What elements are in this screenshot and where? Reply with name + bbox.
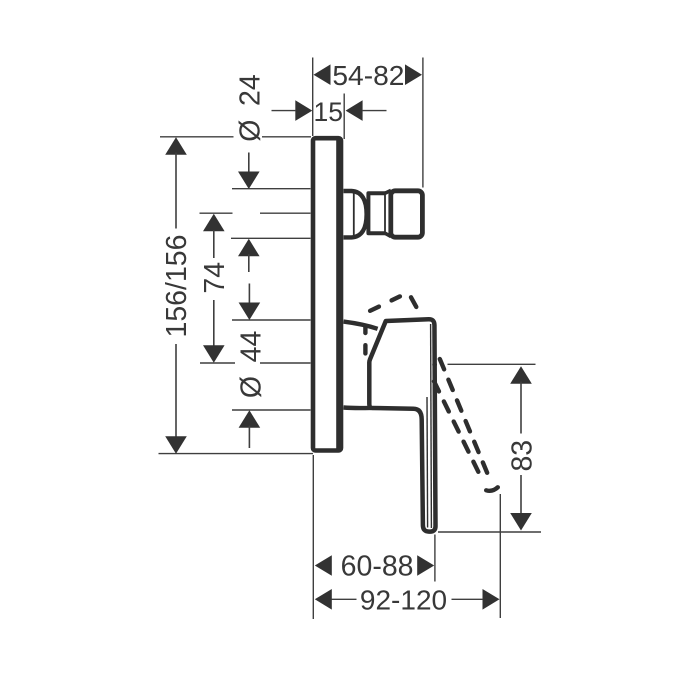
centerline knob (74 top) [200, 212, 311, 214]
wall plate (escutcheon, edge view) [313, 138, 341, 450]
vertical extension line 92-120 right [499, 494, 501, 618]
dimension 156/156 [165, 137, 187, 155]
dashed lever left line [434, 381, 482, 479]
extension line top-left (156/156 top, plate top level) [160, 136, 311, 138]
dashed handle raised: sleeve edge dash 2 [363, 345, 367, 353]
dimension 92-120 [315, 589, 500, 610]
handle sleeve bottom curve [344, 405, 372, 410]
vertical extension line 15 right [343, 94, 345, 140]
knob shoulder chamfers [385, 190, 391, 236]
extension line handle base bottom (Ø44 lower) [232, 409, 311, 411]
svg-text:74: 74 [199, 262, 231, 294]
dimension 74 [203, 214, 225, 232]
handle inner parting line [430, 324, 433, 528]
svg-text:83: 83 [506, 440, 538, 472]
dimension Ø 44 [248, 284, 250, 305]
handle body and grip outline [369, 319, 435, 531]
svg-text:60-88: 60-88 [341, 551, 414, 583]
dashed handle raised: top edge left run dash 2 [392, 296, 400, 300]
dimension 15 [295, 100, 362, 121]
dashed lever right line [440, 359, 490, 478]
vertical extension line bottom-left (60-88 / 92-120 left) [312, 455, 314, 619]
centerline handle pivot (74 bottom) [200, 362, 311, 364]
extension line bottom-left (156/156 bottom, plate bottom level) [159, 453, 314, 455]
dashed handle raised: sleeve edge dash 1 [363, 327, 367, 333]
svg-text:54-82: 54-82 [332, 59, 404, 91]
vertical extension line 60-88 right [434, 535, 436, 582]
knob neck flange [344, 191, 367, 237]
knob neck flange parting line [353, 193, 355, 236]
grip inner line [426, 397, 429, 528]
extension line handle top (Ø44 upper) [232, 319, 311, 321]
knob mid section [368, 193, 385, 233]
dimension 54-82 [314, 64, 423, 85]
dimension Ø 24 [234, 74, 266, 142]
svg-text:Ø 24: Ø 24 [234, 74, 266, 142]
vertical extension line 54-82 right [422, 58, 424, 188]
svg-text:92-120: 92-120 [360, 584, 447, 615]
wall plate inner face line [336, 141, 339, 449]
dashed lever end cap [486, 487, 498, 491]
svg-text:Ø 44: Ø 44 [236, 331, 268, 399]
vertical extension line left (54-82 / 15 left) [312, 58, 314, 137]
dimension 83 [510, 366, 532, 384]
svg-text:156/156: 156/156 [161, 234, 193, 337]
extension line 83 bottom [438, 531, 541, 533]
extension line 83 top [448, 363, 536, 365]
knob end cap [391, 191, 423, 237]
handle side tick [432, 364, 437, 366]
extension line knob bottom (Ø24 lower) [231, 237, 311, 239]
knob groove line [384, 194, 386, 234]
dashed handle raised: top edge right dash [411, 297, 416, 307]
handle sleeve top curve [344, 322, 378, 329]
svg-text:15: 15 [314, 97, 343, 127]
dimension 60-88 [315, 555, 434, 576]
extension line knob top (Ø24 upper) [232, 188, 311, 190]
dashed handle raised: top edge left run dash 1 [370, 307, 379, 311]
